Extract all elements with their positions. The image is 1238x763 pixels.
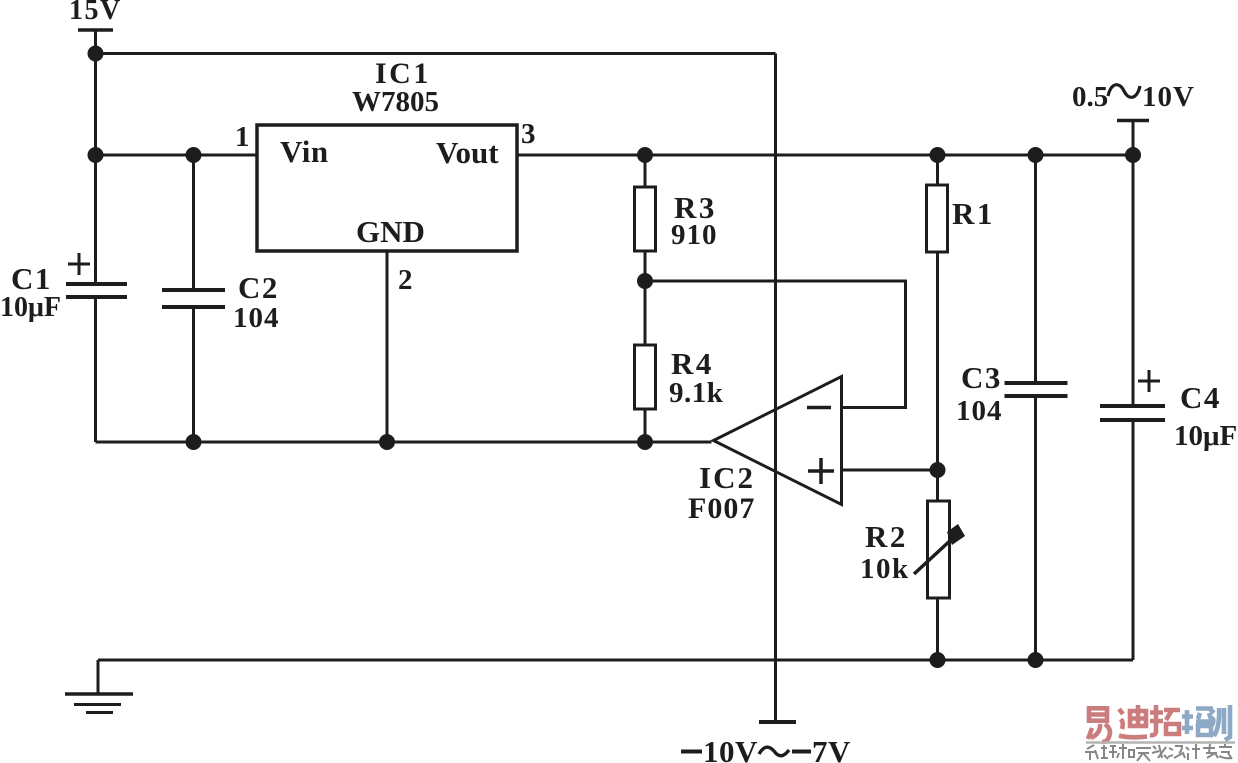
op-amp inverting input minus symbol: [807, 406, 831, 410]
svg-text:C4: C4: [1180, 380, 1221, 415]
logo char 3 tuo: [1150, 705, 1180, 735]
wire: input rail left segment to IC1 pin1: [96, 154, 258, 157]
watermark logo yiditop: [1085, 705, 1235, 761]
node: output rail / terminal: [1125, 147, 1141, 163]
node: 0V rail / C2: [186, 434, 202, 450]
negative supply terminal bar: [759, 720, 796, 724]
svg-text:Vin: Vin: [280, 134, 329, 169]
wire: C4 bottom lead: [1132, 422, 1135, 660]
capacitor C2 plates: [162, 288, 225, 292]
svg-text:2: 2: [398, 264, 413, 296]
wire: R3 top lead: [644, 155, 647, 187]
wire: C3 top lead: [1034, 155, 1037, 381]
svg-text:0.5: 0.5: [1072, 81, 1108, 113]
node: 0V rail / GND pin: [379, 434, 395, 450]
node: 0V rail / R4: [637, 434, 653, 450]
logo char 2 di: [1119, 705, 1147, 737]
wire: C1 bottom lead: [94, 299, 97, 442]
node: 15V / top rail: [88, 46, 104, 62]
wire: negative supply vertical: [774, 54, 777, 723]
capacitor C3 plates: [1005, 381, 1068, 385]
output terminal bar 0.5~10V: [1117, 119, 1149, 123]
capacitor C1 plates: [66, 282, 127, 286]
svg-text:9.1k: 9.1k: [669, 377, 724, 409]
svg-text:C2: C2: [238, 270, 279, 305]
node: output rail / R1: [930, 147, 946, 163]
wire: R1 bottom lead down to + node: [936, 252, 939, 470]
wire: output terminal vertical to C4: [1132, 121, 1135, 405]
resistor R1 body: [927, 185, 948, 252]
logo char 1 yi: [1088, 706, 1110, 742]
node: output rail / C3: [1028, 147, 1044, 163]
wire: 0V rail to op-amp output: [96, 441, 712, 444]
wire: IC1 GND pin 2 down: [386, 251, 389, 442]
capacitor C1 polarity plus: [68, 263, 90, 266]
node: bottom rail / C3: [1028, 652, 1044, 668]
potentiometer R2 body: [928, 501, 950, 598]
svg-text:10k: 10k: [860, 553, 910, 585]
op-amp non-inverting input plus symbol: [808, 469, 834, 473]
resistor R4 body: [635, 345, 656, 409]
svg-text:C1: C1: [11, 261, 52, 296]
svg-text:Vout: Vout: [436, 135, 499, 170]
wire: C2 bottom lead: [192, 309, 195, 442]
svg-text:F007: F007: [688, 492, 755, 525]
wire: top rail from 15V to negative-supply drop: [96, 52, 776, 55]
logo char 5 xun: [1210, 705, 1230, 740]
wire: R4 bottom lead: [644, 409, 647, 442]
wire: op-amp non-inverting input to R1/R2 node: [842, 469, 938, 472]
wire: 15V vertical down to C1 top plate: [94, 30, 97, 282]
svg-text:104: 104: [233, 302, 280, 334]
IC1 regulator box W7805: [257, 125, 517, 251]
svg-text:7V: 7V: [812, 734, 851, 763]
label -10V~-7V supply: [681, 750, 702, 754]
node: R3/R4 feedback: [637, 273, 653, 289]
subtitle: she pin he tian xian she ji zhuan jia: [1085, 744, 1232, 761]
potentiometer R2 arrow: [914, 538, 953, 574]
node: input rail / C1: [88, 147, 104, 163]
svg-text:910: 910: [671, 219, 718, 251]
node: output rail / R3: [637, 147, 653, 163]
svg-text:10V: 10V: [1142, 81, 1195, 113]
wire: R2 top lead: [936, 470, 939, 501]
svg-text:W7805: W7805: [352, 86, 439, 118]
resistor R3 body: [635, 187, 656, 251]
node: + input / R1 / R2: [930, 462, 946, 478]
wire: C3 bottom lead: [1034, 398, 1037, 660]
op-amp U: IC2 F007 triangle: [714, 377, 842, 505]
svg-text:R4: R4: [671, 346, 714, 381]
wire: output rail from IC1 pin3 to output terminal: [517, 154, 1133, 157]
capacitor C4 plates: [1100, 404, 1165, 408]
svg-text:IC2: IC2: [699, 460, 755, 495]
wire: C2 top lead: [192, 155, 195, 288]
svg-text:3: 3: [521, 118, 536, 150]
wire: bottom negative rail: [98, 659, 1133, 662]
wire: ground stub: [97, 660, 100, 693]
wire: feedback from R3/R4 node to op-amp inverting input: [645, 281, 906, 408]
svg-text:10V: 10V: [703, 734, 758, 763]
svg-text:C3: C3: [961, 360, 1002, 395]
svg-text:15V: 15V: [69, 0, 122, 26]
wire: R2 bottom lead: [936, 598, 939, 660]
wire: R4 top lead: [644, 281, 647, 345]
+15V terminal bar: [78, 28, 113, 32]
wire: R1 top lead: [936, 155, 939, 185]
wire: R3 bottom lead to node: [644, 251, 647, 281]
node: bottom rail / R2: [930, 652, 946, 668]
svg-text:R1: R1: [952, 196, 995, 231]
svg-text:GND: GND: [356, 214, 425, 249]
svg-text:1: 1: [235, 121, 250, 153]
svg-text:10μF: 10μF: [1174, 420, 1237, 452]
svg-text:R2: R2: [865, 519, 908, 554]
node: input rail / C2: [186, 147, 202, 163]
ground symbol: [65, 692, 133, 696]
logo underline: [1086, 741, 1235, 744]
svg-text:10μF: 10μF: [0, 292, 61, 323]
svg-text:104: 104: [956, 395, 1003, 427]
logo char 4 pei: [1182, 709, 1213, 736]
capacitor C4 polarity plus: [1138, 380, 1160, 383]
